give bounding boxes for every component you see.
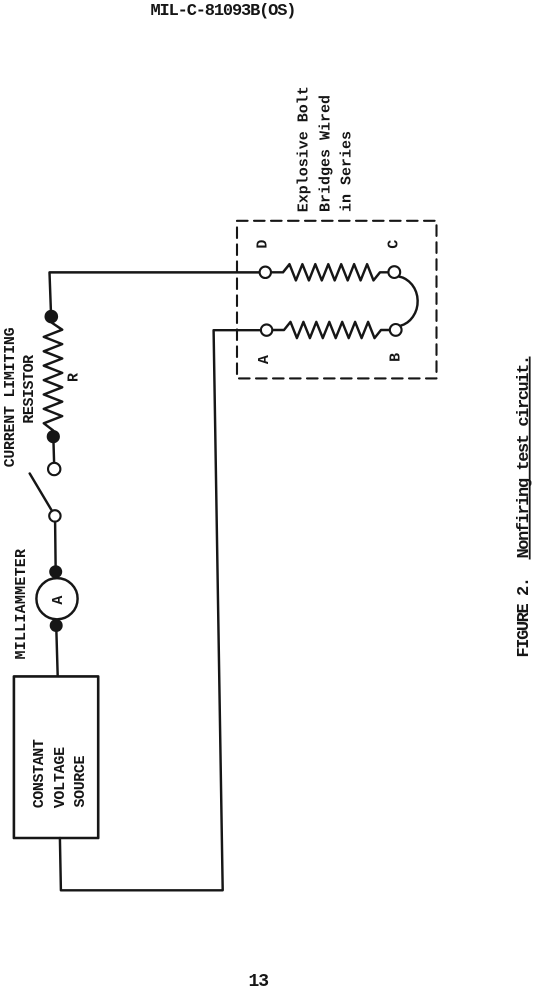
svg-text:A: A	[50, 596, 67, 605]
svg-text:in Series: in Series	[339, 131, 356, 212]
svg-text:MILLIAMMETER: MILLIAMMETER	[13, 549, 30, 660]
svg-text:R: R	[66, 373, 83, 382]
svg-text:A: A	[256, 355, 273, 364]
svg-text:MIL-C-81093B(OS): MIL-C-81093B(OS)	[151, 2, 296, 21]
svg-text:D: D	[254, 240, 271, 249]
svg-text:VOLTAGE: VOLTAGE	[52, 747, 69, 808]
svg-text:C: C	[385, 240, 402, 249]
svg-text:Nonfiring test circuit.: Nonfiring test circuit.	[515, 356, 534, 558]
svg-text:SOURCE: SOURCE	[72, 755, 89, 807]
svg-text:RESISTOR: RESISTOR	[21, 355, 38, 424]
svg-text:FIGURE 2.: FIGURE 2.	[515, 578, 534, 657]
svg-text:B: B	[388, 353, 405, 362]
svg-text:13: 13	[249, 972, 269, 988]
svg-text:Bridges Wired: Bridges Wired	[317, 95, 334, 212]
svg-text:CONSTANT: CONSTANT	[31, 739, 48, 808]
svg-text:CURRENT LIMITING: CURRENT LIMITING	[2, 327, 19, 467]
svg-text:Explosive Bolt: Explosive Bolt	[295, 86, 312, 212]
